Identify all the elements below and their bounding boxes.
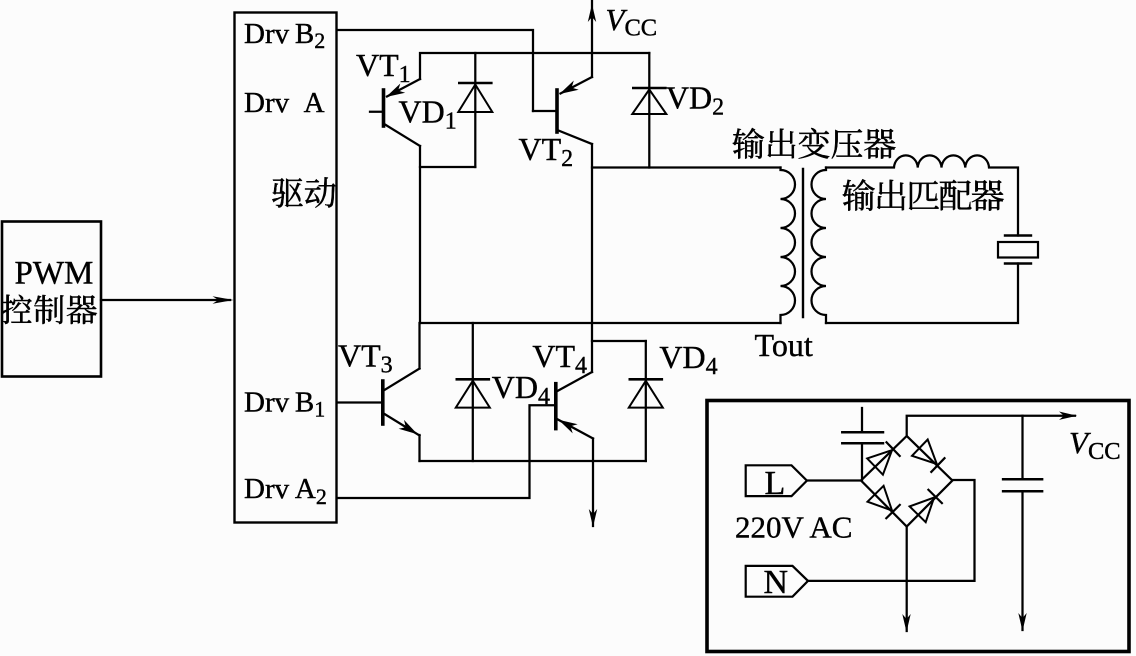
svg-text:Tout: Tout <box>755 327 813 363</box>
svg-text:Drv A: Drv A <box>244 87 325 119</box>
svg-text:L: L <box>765 465 786 502</box>
svg-text:N: N <box>764 564 789 601</box>
svg-text:Drv B1: Drv B1 <box>244 387 325 422</box>
svg-text:220V AC: 220V AC <box>735 510 852 545</box>
svg-text:Drv A2: Drv A2 <box>244 473 327 509</box>
svg-text:Drv B2: Drv B2 <box>244 18 325 53</box>
svg-text:PWM: PWM <box>15 256 94 292</box>
